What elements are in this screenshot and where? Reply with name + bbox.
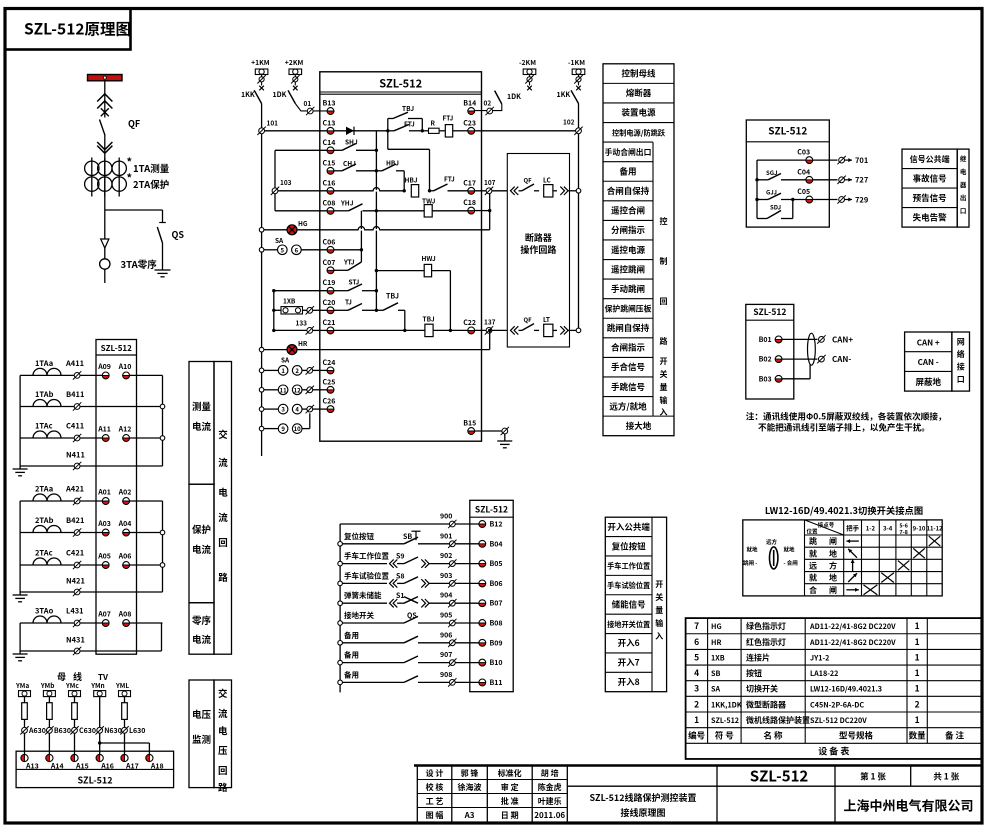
svg-text:02: 02 (484, 98, 492, 108)
svg-text:红色指示灯: 红色指示灯 (746, 637, 786, 648)
svg-text:器: 器 (960, 179, 967, 189)
svg-text:A01: A01 (97, 488, 111, 498)
svg-text:137: 137 (484, 317, 496, 327)
svg-text:手车工作位置: 手车工作位置 (607, 562, 650, 572)
svg-text:103: 103 (280, 177, 292, 187)
svg-text:C19: C19 (323, 278, 336, 288)
svg-text:A03: A03 (97, 519, 111, 529)
svg-text:7-8: 7-8 (899, 528, 908, 536)
svg-text:3: 3 (694, 683, 699, 695)
svg-text:路: 路 (218, 570, 228, 584)
svg-text:郭 锋: 郭 锋 (461, 768, 479, 779)
svg-text:HR: HR (298, 338, 308, 348)
svg-text:电流: 电流 (192, 542, 212, 556)
svg-text:SZL-512线路保护测控装置: SZL-512线路保护测控装置 (589, 791, 696, 804)
svg-text:107: 107 (484, 177, 496, 187)
svg-text:729: 729 (855, 194, 869, 205)
svg-text:1: 1 (915, 651, 920, 663)
svg-text:01: 01 (304, 98, 312, 108)
svg-text:1: 1 (694, 714, 699, 726)
svg-text:网: 网 (957, 337, 965, 348)
svg-text:L431: L431 (66, 606, 84, 617)
svg-text:C21: C21 (323, 318, 336, 328)
svg-text:12: 12 (294, 385, 302, 394)
svg-text:远方: 远方 (766, 538, 778, 546)
svg-text:切换开关: 切换开关 (746, 684, 778, 695)
svg-text:关: 关 (655, 592, 663, 603)
svg-text:回: 回 (218, 763, 228, 777)
svg-text:JY1-2: JY1-2 (810, 653, 829, 663)
svg-text:开入6: 开入6 (618, 637, 640, 649)
svg-text:901: 901 (440, 531, 452, 541)
svg-text:1: 1 (915, 636, 920, 648)
svg-text:6: 6 (694, 636, 699, 648)
svg-text:2TAb: 2TAb (35, 515, 54, 526)
svg-text:手动跳闸: 手动跳闸 (611, 283, 645, 295)
svg-text:SZL-512原理图: SZL-512原理图 (24, 18, 131, 40)
svg-text:AD11-22/41-8G2 DC220V: AD11-22/41-8G2 DC220V (809, 622, 896, 632)
svg-text:10: 10 (294, 424, 302, 433)
svg-text:路: 路 (218, 780, 228, 794)
svg-text:合: 合 (809, 585, 817, 596)
svg-text:按钮: 按钮 (746, 668, 762, 679)
svg-text:+2KM: +2KM (285, 57, 304, 67)
svg-text:5: 5 (694, 651, 699, 663)
svg-text:SZL-512 DC220V: SZL-512 DC220V (810, 716, 867, 726)
svg-text:9-10: 9-10 (913, 524, 926, 533)
svg-text:控: 控 (660, 216, 668, 227)
svg-text:C06: C06 (323, 237, 336, 247)
svg-text:备用: 备用 (619, 165, 636, 177)
svg-text:合闸指示: 合闸指示 (611, 342, 646, 354)
svg-text:量: 量 (660, 382, 668, 393)
svg-text:遥控跳闸: 遥控跳闸 (611, 263, 645, 275)
svg-text:C13: C13 (323, 118, 336, 128)
svg-text:133: 133 (296, 318, 308, 328)
svg-text:B05: B05 (490, 559, 503, 569)
svg-text:就地: 就地 (747, 546, 759, 554)
svg-text:903: 903 (440, 571, 452, 581)
svg-text:微机线路保护装置: 微机线路保护装置 (746, 715, 810, 726)
svg-text:AD11-22/41-8G2 DC220V: AD11-22/41-8G2 DC220V (809, 638, 896, 648)
svg-text:9: 9 (281, 424, 285, 433)
svg-text:11-12: 11-12 (927, 524, 943, 533)
svg-text:C26: C26 (323, 397, 336, 407)
svg-text:SZL-512: SZL-512 (750, 766, 809, 787)
svg-text:1TAa: 1TAa (35, 358, 53, 369)
svg-text:1: 1 (915, 667, 920, 679)
svg-text:络: 络 (957, 349, 965, 360)
svg-text:测量: 测量 (192, 399, 212, 413)
svg-text:量: 量 (655, 605, 663, 616)
svg-text:YTJ: YTJ (343, 257, 355, 267)
svg-text:不能把通讯线引至端子排上，以免产生干扰。: 不能把通讯线引至端子排上，以免产生干扰。 (758, 422, 930, 434)
svg-text:CAN -: CAN - (918, 357, 939, 368)
svg-text:流: 流 (218, 510, 228, 524)
svg-text:SZL-512: SZL-512 (768, 123, 807, 138)
svg-text:B03: B03 (759, 374, 772, 384)
svg-text:701: 701 (855, 155, 868, 166)
svg-text:熔断器: 熔断器 (626, 87, 652, 99)
svg-text:屏蔽地: 屏蔽地 (915, 376, 941, 388)
svg-text:LT: LT (543, 314, 550, 324)
svg-text:失电告警: 失电告警 (913, 211, 948, 223)
svg-text:SZL-512: SZL-512 (379, 76, 422, 92)
svg-text:手车试验位置: 手车试验位置 (344, 570, 389, 581)
svg-text:关: 关 (660, 369, 668, 380)
svg-text:预告信号: 预告信号 (913, 192, 947, 204)
svg-text:3-4: 3-4 (883, 524, 893, 533)
svg-text:操作回路: 操作回路 (520, 243, 556, 256)
svg-text:1KK,1DK: 1KK,1DK (711, 700, 742, 710)
svg-text:SZL-512: SZL-512 (753, 306, 786, 318)
svg-text:把手: 把手 (846, 523, 860, 533)
svg-text:C630: C630 (79, 726, 96, 736)
svg-text:R: R (431, 118, 436, 128)
svg-text:制: 制 (660, 256, 668, 267)
svg-text:C07: C07 (323, 258, 336, 268)
svg-text:B07: B07 (490, 599, 503, 609)
svg-text:B411: B411 (66, 389, 84, 400)
svg-text:C17: C17 (463, 178, 476, 188)
svg-text:事故信号: 事故信号 (913, 172, 947, 184)
svg-text:QF: QF (128, 117, 140, 130)
svg-text:跳闸 -: 跳闸 - (743, 559, 757, 567)
svg-text:保护跳闸压板: 保护跳闸压板 (605, 303, 652, 314)
svg-text:电: 电 (960, 166, 967, 176)
svg-text:绿色指示灯: 绿色指示灯 (746, 621, 786, 632)
svg-text:1XB: 1XB (283, 296, 296, 306)
svg-text:YMn: YMn (90, 680, 104, 690)
svg-text:CAN+: CAN+ (832, 334, 853, 345)
svg-text:A16: A16 (100, 762, 114, 772)
svg-text:标准化: 标准化 (498, 768, 522, 779)
svg-text:*: * (127, 154, 133, 170)
svg-text:SA: SA (275, 235, 284, 245)
svg-text:A18: A18 (150, 762, 164, 772)
svg-text:型号规格: 型号规格 (839, 730, 874, 742)
svg-text:口: 口 (957, 374, 965, 385)
svg-text:就: 就 (809, 548, 817, 559)
svg-text:2TAc: 2TAc (35, 548, 53, 559)
svg-text:TBJ: TBJ (386, 292, 399, 302)
svg-text:工 艺: 工 艺 (426, 796, 444, 807)
svg-text:5: 5 (281, 245, 285, 254)
svg-text:A09: A09 (97, 362, 111, 372)
svg-text:N421: N421 (66, 576, 85, 587)
svg-text:-1KM: -1KM (568, 57, 585, 67)
svg-text:C14: C14 (323, 138, 336, 148)
svg-text:TJ: TJ (345, 297, 352, 307)
svg-text:流: 流 (218, 706, 228, 720)
svg-text:FTJ: FTJ (443, 113, 454, 123)
svg-text:N630: N630 (104, 726, 122, 736)
svg-text:TWJ: TWJ (422, 196, 436, 206)
svg-text:+1KM: +1KM (251, 57, 270, 67)
svg-text:备用: 备用 (344, 669, 359, 680)
svg-text:1TAb: 1TAb (35, 389, 54, 400)
svg-text:HG: HG (298, 218, 308, 228)
svg-text:QF: QF (524, 315, 533, 324)
svg-text:SHJ: SHJ (345, 137, 358, 147)
svg-text:7: 7 (694, 620, 699, 632)
svg-text:接地开关: 接地开关 (344, 610, 374, 621)
svg-text:HG: HG (711, 622, 722, 632)
svg-text:B13: B13 (323, 99, 336, 109)
svg-text:HBJ: HBJ (405, 175, 418, 185)
svg-text:复位按钮: 复位按钮 (612, 540, 647, 552)
svg-text:C04: C04 (797, 167, 810, 177)
svg-text:合闸自保持: 合闸自保持 (607, 185, 650, 197)
svg-text:电流: 电流 (192, 419, 212, 433)
svg-text:*: * (127, 170, 133, 186)
svg-text:C23: C23 (463, 118, 476, 128)
svg-text:手车工作位置: 手车工作位置 (344, 551, 389, 562)
svg-text:装置电源: 装置电源 (621, 107, 656, 119)
svg-text:904: 904 (440, 591, 452, 601)
svg-text:校 核: 校 核 (426, 782, 444, 793)
svg-text:LC: LC (543, 174, 552, 184)
svg-text:YHJ: YHJ (340, 198, 354, 208)
svg-text:2: 2 (694, 698, 699, 710)
svg-text:输: 输 (660, 395, 668, 406)
svg-text:数量: 数量 (909, 730, 927, 742)
svg-text:胡 培: 胡 培 (541, 768, 559, 779)
svg-text:SZL-512: SZL-512 (711, 716, 739, 726)
svg-text:SZL-512: SZL-512 (475, 504, 508, 516)
svg-text:开入8: 开入8 (618, 676, 640, 688)
svg-text:批 准: 批 准 (501, 796, 519, 807)
svg-text:开: 开 (655, 579, 663, 590)
svg-text:连接片: 连接片 (746, 652, 770, 663)
svg-text:YMa: YMa (15, 680, 29, 690)
svg-text:907: 907 (440, 650, 452, 660)
svg-text:C24: C24 (323, 358, 336, 368)
svg-text:电流: 电流 (192, 632, 212, 646)
svg-text:GJJ: GJJ (766, 188, 777, 197)
svg-text:- 合闸: - 合闸 (784, 559, 799, 567)
svg-text:复位按钮: 复位按钮 (344, 531, 374, 542)
svg-text:就地: 就地 (784, 546, 796, 554)
svg-text:A421: A421 (65, 484, 84, 495)
svg-text:零序: 零序 (192, 613, 212, 627)
svg-text:1: 1 (915, 714, 920, 726)
svg-text:流: 流 (218, 455, 228, 469)
svg-text:就: 就 (809, 573, 817, 584)
svg-text:TBJ: TBJ (423, 314, 435, 324)
svg-text:102: 102 (563, 117, 575, 127)
svg-text:位置: 位置 (806, 528, 818, 536)
svg-text:闸: 闸 (829, 536, 837, 547)
svg-text:编号: 编号 (688, 730, 705, 742)
svg-text:908: 908 (440, 670, 452, 680)
svg-text:A04: A04 (118, 519, 132, 529)
svg-text:QS: QS (172, 228, 185, 241)
svg-text:A05: A05 (97, 552, 111, 562)
svg-text:QF: QF (524, 175, 533, 184)
svg-text:交: 交 (218, 427, 228, 441)
svg-text:SB: SB (711, 669, 720, 679)
svg-text:保护: 保护 (192, 522, 211, 536)
svg-text:地: 地 (829, 573, 837, 584)
svg-text:HWJ: HWJ (422, 253, 436, 263)
svg-text:A07: A07 (97, 610, 111, 620)
svg-text:2TA保护: 2TA保护 (133, 177, 169, 191)
svg-text:CAN-: CAN- (832, 354, 851, 365)
svg-text:C18: C18 (463, 198, 476, 208)
svg-text:A12: A12 (118, 425, 132, 435)
svg-text:FTJ: FTJ (444, 174, 455, 184)
svg-text:A630: A630 (28, 726, 46, 736)
svg-text:遥控电源: 遥控电源 (611, 244, 646, 256)
svg-text:-2KM: -2KM (519, 57, 536, 67)
svg-text:A14: A14 (50, 762, 64, 772)
svg-text:路: 路 (660, 336, 668, 347)
svg-text:727: 727 (855, 175, 869, 186)
svg-text:B01: B01 (759, 335, 772, 345)
svg-text:接大地: 接大地 (626, 420, 652, 432)
svg-text:电: 电 (218, 485, 228, 499)
svg-text:出: 出 (960, 192, 967, 202)
svg-text:L630: L630 (129, 726, 145, 736)
svg-text:B08: B08 (490, 619, 503, 629)
svg-text:A411: A411 (65, 358, 84, 369)
svg-text:回: 回 (660, 296, 668, 307)
svg-text:B04: B04 (490, 539, 503, 549)
svg-text:控制母线: 控制母线 (621, 68, 656, 80)
svg-text:SDJ: SDJ (770, 203, 781, 212)
svg-text:电压: 电压 (192, 707, 212, 721)
svg-text:CAN +: CAN + (917, 338, 940, 349)
svg-text:C20: C20 (323, 298, 336, 308)
svg-text:A02: A02 (118, 488, 132, 498)
svg-text:LW12-16D/49.4021.3: LW12-16D/49.4021.3 (810, 685, 882, 695)
svg-text:2: 2 (295, 366, 299, 375)
svg-text:B630: B630 (54, 726, 71, 736)
svg-text:储能信号: 储能信号 (612, 598, 646, 610)
svg-text:B12: B12 (490, 520, 503, 530)
svg-text:SZL-512: SZL-512 (101, 343, 132, 354)
svg-text:B14: B14 (463, 99, 476, 109)
svg-text:LW12-16D/49.4021.3切换开关接点图: LW12-16D/49.4021.3切换开关接点图 (765, 503, 923, 517)
svg-text:审 定: 审 定 (501, 782, 519, 793)
svg-text:4: 4 (295, 405, 299, 414)
svg-text:1TA测量: 1TA测量 (133, 161, 170, 175)
svg-text:STJ: STJ (349, 277, 360, 287)
svg-text:SZL-512: SZL-512 (77, 774, 112, 787)
svg-text:C421: C421 (66, 548, 84, 559)
svg-text:遥控合闸: 遥控合闸 (611, 205, 645, 217)
svg-text:接地开关位置: 接地开关位置 (607, 620, 650, 630)
svg-text:手车试验位置: 手车试验位置 (607, 581, 650, 591)
svg-text:906: 906 (440, 630, 452, 640)
svg-text:手跳信号: 手跳信号 (611, 381, 645, 393)
svg-text:口: 口 (960, 205, 967, 215)
svg-text:弹簧未储能: 弹簧未储能 (344, 590, 382, 601)
svg-text:C05: C05 (797, 187, 810, 197)
svg-text:分闸指示: 分闸指示 (611, 224, 646, 236)
svg-text:B10: B10 (490, 658, 503, 668)
svg-text:A10: A10 (118, 362, 132, 372)
svg-text:N411: N411 (66, 450, 85, 461)
svg-text:6: 6 (295, 245, 299, 254)
svg-text:SA: SA (281, 355, 290, 365)
svg-text:11: 11 (280, 385, 288, 394)
svg-text:开: 开 (660, 356, 668, 367)
svg-text:B02: B02 (759, 355, 772, 365)
svg-text:A11: A11 (97, 425, 111, 435)
svg-text:A08: A08 (118, 610, 132, 620)
svg-text:1-2: 1-2 (866, 524, 876, 533)
svg-text:远方/就地: 远方/就地 (609, 400, 647, 412)
svg-text:徐海波: 徐海波 (458, 782, 482, 793)
svg-text:HR: HR (711, 638, 721, 648)
svg-text:A06: A06 (118, 552, 132, 562)
svg-text:信号公共端: 信号公共端 (910, 154, 950, 165)
svg-text:输: 输 (655, 618, 663, 629)
svg-text:2: 2 (915, 698, 920, 710)
svg-text:方: 方 (829, 560, 837, 571)
svg-text:母: 母 (57, 670, 66, 683)
svg-text:A13: A13 (25, 762, 39, 772)
svg-text:符 号: 符 号 (715, 730, 734, 742)
svg-text:1: 1 (281, 366, 285, 375)
svg-text:1XB: 1XB (711, 653, 725, 663)
svg-text:C15: C15 (323, 158, 336, 168)
svg-text:跳闸自保持: 跳闸自保持 (607, 322, 650, 334)
svg-text:YMb: YMb (40, 680, 55, 690)
svg-text:SGJ: SGJ (766, 168, 777, 177)
svg-text:跳: 跳 (809, 536, 817, 547)
svg-text:SA: SA (711, 685, 720, 695)
svg-text:监测: 监测 (192, 732, 211, 746)
svg-text:设 计: 设 计 (426, 768, 444, 779)
svg-text:B15: B15 (463, 419, 476, 429)
svg-text:B421: B421 (66, 515, 84, 526)
svg-text:1TAc: 1TAc (35, 421, 53, 432)
svg-text:C411: C411 (66, 421, 84, 432)
svg-text:微型断路器: 微型断路器 (746, 699, 786, 710)
svg-text:开入7: 开入7 (618, 657, 640, 669)
svg-text:远: 远 (809, 560, 817, 571)
svg-text:HBJ: HBJ (386, 158, 399, 168)
svg-text:上海中州电气有限公司: 上海中州电气有限公司 (843, 796, 973, 815)
svg-text:C03: C03 (797, 148, 810, 158)
svg-text:C08: C08 (323, 198, 336, 208)
svg-text:3TAo: 3TAo (35, 606, 54, 617)
svg-text:共 1 张: 共 1 张 (933, 771, 959, 783)
svg-text:900: 900 (440, 512, 452, 522)
svg-text:C16: C16 (323, 178, 336, 188)
svg-text:回: 回 (218, 535, 228, 549)
svg-text:日 期: 日 期 (501, 810, 519, 821)
svg-text:手动合闸出口: 手动合闸出口 (605, 147, 652, 158)
svg-text:备用: 备用 (344, 650, 359, 661)
svg-text:B11: B11 (490, 678, 503, 688)
svg-text:3TA零序: 3TA零序 (121, 257, 158, 271)
svg-text:备 注: 备 注 (945, 730, 964, 742)
svg-text:接: 接 (957, 362, 965, 373)
svg-text:1KK: 1KK (241, 90, 255, 100)
svg-text:备用: 备用 (344, 630, 359, 641)
svg-text:905: 905 (440, 611, 452, 621)
svg-text:入: 入 (660, 407, 668, 418)
svg-text:压: 压 (218, 743, 228, 757)
svg-text:FTJ: FTJ (404, 119, 415, 129)
svg-text:交: 交 (218, 686, 228, 700)
svg-text:A17: A17 (125, 762, 139, 772)
svg-text:1: 1 (915, 620, 920, 632)
